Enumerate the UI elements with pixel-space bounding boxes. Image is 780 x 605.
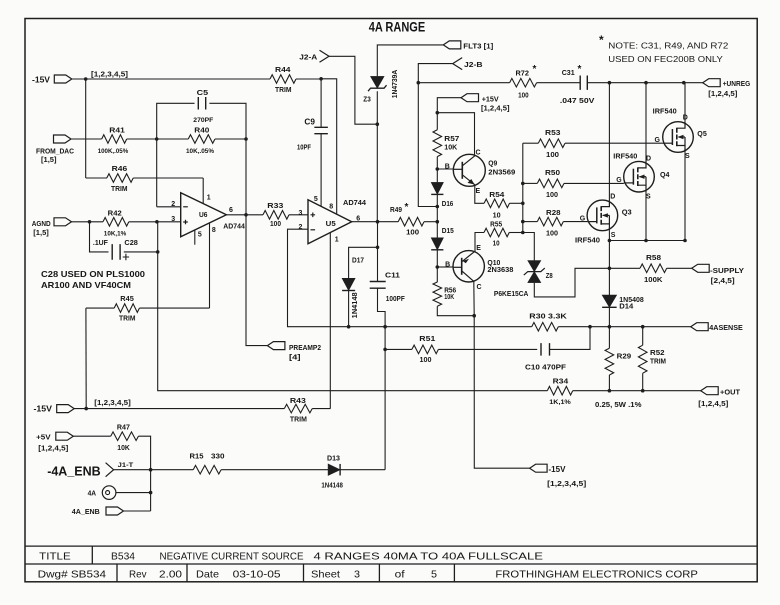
wire pin8 column [321,79,337,214]
node Q3 source [608,239,612,243]
node 4A/enable column [149,491,153,495]
svg-text:TRIM: TRIM [275,85,292,94]
svg-text:AD744: AD744 [343,198,367,207]
svg-text:2.00: 2.00 [159,568,182,580]
svg-text:B: B [445,164,450,171]
resistor R40 [188,135,215,144]
svg-text:R30 3.3K: R30 3.3K [529,312,567,321]
svg-text:Date: Date [196,568,219,580]
diode D13 1N4148 [328,464,340,476]
svg-text:AGND: AGND [32,219,51,228]
resistor R15 330 [193,465,221,474]
wire gate drive rail [522,143,524,232]
resistor R44 trim [270,75,296,84]
wire U6 pin1 trim [202,178,204,204]
svg-text:U6: U6 [199,210,208,219]
svg-text:1N4148: 1N4148 [352,292,359,318]
svg-text:R53: R53 [545,128,561,137]
svg-text:D16: D16 [442,199,454,208]
node rail/R55 [521,231,525,235]
wire R43 to U5 pin1 [312,408,330,410]
svg-text:03-10-05: 03-10-05 [233,568,281,580]
svg-text:[1,5]: [1,5] [33,230,49,237]
wire R58 to -SUPPLY [667,267,692,269]
title block lines [25,546,757,564]
svg-text:J2-B: J2-B [464,62,483,69]
svg-text:AD744: AD744 [223,222,245,231]
svg-text:Q4: Q4 [660,170,670,179]
svg-text:NOTE: C31, R49, AND R72: NOTE: C31, R49, AND R72 [608,41,728,51]
node rail/R54 [521,202,525,206]
wire Z8 bottom to R58 [534,268,640,297]
capacitor C28 (polarized) [90,222,109,252]
wire 4A_ENB to enable column [124,510,151,512]
svg-text:4A RANGE: 4A RANGE [369,19,426,34]
svg-text:1K,1%: 1K,1% [549,399,571,406]
svg-text:R34: R34 [553,377,569,386]
svg-text:TRIM: TRIM [111,184,128,193]
wire R33 to U5 pin3 [289,214,308,216]
connector PREAMP2 [267,342,285,350]
wire Q4 drain [645,83,647,162]
svg-text:Q9: Q9 [488,159,497,168]
svg-text:R51: R51 [419,334,435,343]
node Q4 drain on +UNREG rail [644,81,648,85]
svg-text:TRIM: TRIM [119,314,136,323]
wire D13 to C11/R51 column [340,469,385,471]
diode D17 1N4148 [349,222,378,279]
resistor R52 trim [642,327,644,346]
svg-text:-15V: -15V [549,465,567,474]
svg-text:10K: 10K [444,294,454,301]
wire pin3 column down to +OUT feedback line [158,222,548,391]
svg-text:-15V: -15V [32,75,51,84]
wire R28 to Q3 gate [563,221,587,223]
svg-text:S: S [646,194,651,201]
wire J1-T to R15 [114,469,194,471]
op-amp U6 AD744 [181,193,227,237]
svg-text:[1,2,4,5]: [1,2,4,5] [708,91,737,98]
svg-text:R44: R44 [275,65,291,74]
wire D14 to sense rail [608,307,610,326]
TVS Z8 P6KE15CA [528,261,541,272]
svg-text:J1-T: J1-T [118,462,134,469]
svg-text:R55: R55 [490,220,502,229]
svg-text:*: * [599,33,604,47]
resistor R51 [385,348,412,350]
node D17 top jog [376,246,380,250]
connector FLT3 [443,41,461,49]
svg-text:[1,2,4,5]: [1,2,4,5] [698,401,728,408]
wire -15V rail to R44 [72,78,270,80]
resistor R33 [263,211,289,220]
U5 pin1 lead down to R43 [329,233,331,409]
node U6 pin3 column [155,220,159,224]
wire Q10 collector node to -15V flag (bottom) [474,316,529,469]
svg-text:TITLE: TITLE [39,550,71,562]
svg-text:1N4739A: 1N4739A [392,70,399,99]
node Q9 base [436,167,440,171]
svg-text:4A: 4A [88,489,97,498]
wire D16 to drive node [436,194,438,237]
svg-text:.1UF: .1UF [93,240,109,247]
svg-text:6: 6 [229,207,233,214]
wire R53 to Q5 gate [565,142,663,144]
connector 4A_ENB [106,507,124,515]
svg-text:2: 2 [299,224,303,231]
svg-text:FLT3 [1]: FLT3 [1] [463,44,493,51]
svg-text:G: G [655,137,661,144]
node R44/C9 junction [319,77,323,81]
resistor R50 100 [523,182,538,184]
svg-text:D13: D13 [327,454,340,463]
diode D15 [431,238,443,250]
U6 pin8 lead to R45 [209,223,211,308]
wire C10 right up to sense rail [550,327,591,350]
node AGND/C28 left [88,220,92,224]
wire Q5 source [684,152,686,240]
svg-text:USED ON FEC200B ONLY: USED ON FEC200B ONLY [608,54,723,64]
resistor R54 10 [484,199,509,208]
svg-text:1: 1 [207,195,211,202]
connector +UNREG [703,79,721,87]
svg-text:R49: R49 [390,205,402,214]
svg-text:R58: R58 [646,253,661,262]
svg-text:U5: U5 [326,219,336,228]
MOSFET Q3 IRF540 [587,200,618,231]
connector -15V (top left) [54,75,72,83]
wire Q10 collector [473,282,475,316]
svg-text:[1,2,4,5]: [1,2,4,5] [481,105,510,112]
node R40/C5 right [244,137,248,141]
wire R44 to pin5/8 columns [296,78,321,80]
connector +15V [461,94,479,102]
svg-text:C9: C9 [304,118,315,127]
wire J2-A to Z3 node [329,56,377,124]
svg-text:C: C [477,284,482,291]
svg-text:R54: R54 [489,190,505,199]
svg-text:R50: R50 [545,168,560,177]
svg-text:G: G [616,177,622,184]
svg-text:R46: R46 [112,164,128,173]
svg-text:D: D [610,194,615,201]
svg-text:Sheet: Sheet [311,568,340,580]
svg-text:IRF540: IRF540 [575,238,600,245]
svg-text:[4]: [4] [289,355,301,362]
svg-text:R42: R42 [108,209,122,218]
wire Q10 base [437,266,453,268]
resistor R53 100 [523,142,539,144]
svg-text:100: 100 [546,230,558,237]
svg-text:B534: B534 [111,550,135,562]
svg-text:R33: R33 [267,201,283,210]
wire output column to PREAMP2 [246,139,267,346]
node Q4 source [644,239,648,243]
svg-text:0.25, 5W .1%: 0.25, 5W .1% [595,400,642,409]
svg-text:of: of [395,568,405,580]
connector FROM_DAC [54,135,72,143]
svg-text:R29: R29 [617,352,632,361]
svg-text:IRF540: IRF540 [613,154,637,161]
node inverting input column [155,137,159,141]
svg-text:C31: C31 [562,68,575,77]
wire J2-B down to drive node [418,64,452,207]
svg-text:3: 3 [171,216,175,223]
wire D15 to Q10 base [436,250,438,282]
svg-text:100: 100 [270,221,281,228]
wire source rail [609,240,685,242]
wire 4A to enable column [116,492,151,494]
wire sense rail to 4ASENSE [558,326,690,328]
node R29/+OUT rail [608,389,612,393]
svg-text:1: 1 [335,236,339,243]
resistor R41 [102,135,127,144]
wire R42 to U6 pin3 [129,221,181,223]
capacitor C11 100PF [377,247,379,281]
svg-text:D17: D17 [352,256,364,265]
svg-text:2N3638: 2N3638 [487,267,513,274]
transistor Q10 2N3638 (PNP) [453,251,484,282]
svg-text:D14: D14 [619,304,633,311]
svg-text:*: * [578,64,582,75]
connector J2-B [453,58,463,70]
node C10/sense [588,325,592,329]
U6 pin5 stub [194,230,196,245]
MOSFET Q4 IRF540 [624,161,655,192]
svg-text:Z3: Z3 [363,95,371,104]
svg-text:R43: R43 [290,396,306,405]
svg-text:B: B [445,262,450,269]
node R52/+OUT rail [641,389,645,393]
node Q10 collector [472,314,476,318]
svg-text:R28: R28 [546,208,561,217]
svg-text:[1,2,3,4,5]: [1,2,3,4,5] [94,400,131,407]
node J2-B / R72 [417,81,421,85]
wire +5V to R47 [73,435,110,437]
svg-text:+UNREG: +UNREG [723,79,751,88]
wire R50 to Q4 gate [564,182,624,184]
node Z3/J2-A [376,122,380,126]
svg-text:4A_ENB: 4A_ENB [72,507,101,516]
wire Q3 drain [608,83,610,201]
wire -15V bottom rail [74,408,284,410]
wire J2-B node to R72 [418,82,509,84]
svg-text:[2,4,5]: [2,4,5] [711,278,735,285]
svg-text:-4A_ENB: -4A_ENB [47,465,100,479]
resistor R28 100 [523,221,538,223]
svg-text:R15: R15 [190,452,204,461]
node U6 output / feedback column [244,213,248,217]
svg-text:-SUPPLY: -SUPPLY [710,266,744,275]
svg-text:R72: R72 [516,69,530,78]
connector +OUT [701,387,719,395]
node drive/R49 [436,220,440,224]
svg-text:R45: R45 [120,294,134,303]
svg-text:[1,2,3,4,5]: [1,2,3,4,5] [547,481,586,488]
svg-text:C: C [476,149,481,156]
wire FLT3 to Z3 [377,45,443,77]
MOSFET Q5 IRF540 [663,122,694,153]
svg-text:J2-A: J2-A [299,55,317,62]
zener Z3 1N4739A [371,76,385,88]
svg-text:C5: C5 [197,88,209,97]
svg-text:IRF540: IRF540 [653,109,677,116]
connector -15V (bottom right) [530,464,548,472]
svg-text:S: S [611,232,616,239]
op-amp U5 AD744 [308,200,352,244]
svg-text:10PF: 10PF [297,144,312,151]
wire -15V down to R46 [85,79,87,178]
svg-text:330: 330 [211,452,225,461]
node drive/J2-B [436,205,440,209]
svg-text:[1,2,3,4,5]: [1,2,3,4,5] [91,71,128,78]
node R52/sense [641,325,645,329]
capacitor C9 on pin5 column [320,79,322,128]
wire R47 to enable column [138,436,150,511]
wire U6 output [226,214,263,216]
wire FROM_DAC to R41 [71,138,102,140]
svg-text:3: 3 [354,568,360,580]
wire source column down to D14 [608,241,610,296]
resistor R42 [103,218,129,227]
svg-text:2N3569: 2N3569 [488,169,515,176]
transistor Q9 2N3569 (NPN) [453,154,485,186]
svg-text:Q3: Q3 [622,207,632,216]
svg-text:C28: C28 [124,238,137,247]
wire +15V branch to Q9 collector [437,113,474,155]
node rail/R50 [521,182,525,186]
svg-text:Q10: Q10 [487,258,500,267]
svg-text:Rev: Rev [129,568,147,580]
connector -15V (bottom left) [57,405,75,413]
svg-text:100: 100 [518,92,529,99]
svg-text:C10 470PF: C10 470PF [525,363,566,372]
svg-text:Z8: Z8 [546,271,553,280]
svg-text:5: 5 [198,232,202,239]
svg-text:[1,5]: [1,5] [41,157,57,164]
node Q5 source [683,239,687,243]
diode D14 1N5408 [602,295,617,307]
wire +15V to R57/Q9 [437,98,461,130]
svg-text:E: E [476,188,481,195]
svg-text:G: G [580,216,586,223]
svg-text:10K: 10K [444,145,457,152]
resistor R29 [608,327,610,349]
wire U5 pin2 feedback [288,229,532,327]
connector +5V [56,432,74,440]
svg-text:FROTHINGHAM ELECTRONICS CORP: FROTHINGHAM ELECTRONICS CORP [495,568,698,580]
svg-text:10: 10 [493,212,501,219]
svg-text:R52: R52 [650,348,665,357]
resistor R58 100K [640,264,667,273]
svg-text:5: 5 [431,568,437,580]
node -15V junction [84,77,88,81]
resistor R56 10K [433,282,442,306]
connector 4ASENSE [691,323,709,331]
svg-text:+5V: +5V [36,432,51,441]
wire R40 to output column [215,138,246,140]
svg-text:5: 5 [314,196,318,203]
svg-text:P6KE15CA: P6KE15CA [494,289,529,298]
capacitor C10 470PF [541,343,550,356]
resistor R34 1K [547,386,572,395]
resistor R72 [510,78,537,87]
svg-text:[1,2,4,5]: [1,2,4,5] [38,446,68,453]
node D14/sense [608,325,612,329]
resistor R47 10K [111,432,139,441]
svg-text:NEGATIVE CURRENT SOURCE: NEGATIVE CURRENT SOURCE [160,550,304,562]
wire U6 pin2 [157,206,181,208]
svg-text:+OUT: +OUT [720,388,740,397]
node R51 tap [383,348,387,352]
wire Q9 base [437,168,453,170]
wire Z3 to U5 output node [376,91,378,222]
svg-text:10: 10 [493,241,500,248]
resistor R45 trim [86,307,114,309]
svg-text:D15: D15 [442,226,454,235]
node C28 right [156,250,160,254]
wire Q3 source [608,231,610,241]
svg-text:100PF: 100PF [386,296,406,303]
svg-text:TRIM: TRIM [650,359,666,366]
wire R49 to drive node [424,221,437,223]
wire R15 to D13 [221,469,328,471]
resistor R43 trim [284,404,312,413]
svg-text:100K,.05%: 100K,.05% [98,148,129,155]
resistor R55 10 [484,228,509,237]
connector 4A (circle) [102,486,116,500]
node R45/-15V rail [84,407,88,411]
wire R45 left down to -15V bottom rail [85,308,87,409]
svg-text:PREAMP2: PREAMP2 [289,343,321,352]
capacitor C31 .047 50V [537,82,581,84]
node enable/R47 [149,468,153,472]
connector -SUPPLY [692,264,710,272]
svg-text:D: D [646,156,651,163]
svg-text:C28 USED ON PLS1000: C28 USED ON PLS1000 [41,269,145,279]
wire Q4 source [645,192,647,241]
node R58/source column [608,267,612,271]
connector AGND [54,218,72,226]
svg-text:10K,1%: 10K,1% [104,230,127,237]
svg-text:100K: 100K [644,277,663,284]
node D17 bottom on feedback rail [347,325,351,329]
wire R34 to +OUT [573,390,701,392]
node U5 output / Z3 [376,220,380,224]
wire Z8 top [523,233,535,261]
resistor R30 3.3K [532,322,559,331]
node Q10 base [436,265,440,269]
wire Q10 emitter to R55 [475,233,484,253]
wire Q9 emitter to R54 [475,185,484,204]
node +15V branch [436,111,440,115]
diode D16 [431,182,443,194]
svg-text:100: 100 [420,357,432,364]
svg-text:FROM_DAC: FROM_DAC [36,149,74,156]
svg-text:100: 100 [406,229,419,236]
svg-text:2: 2 [171,201,175,208]
svg-text:6: 6 [356,215,360,222]
wire R41-R40 [127,138,189,140]
node C11 bottom on feedback rail [383,325,387,329]
svg-text:S: S [685,153,690,160]
svg-text:E: E [476,245,481,252]
svg-text:R41: R41 [109,126,125,135]
svg-text:3: 3 [299,210,303,217]
svg-text:R40: R40 [194,126,209,135]
svg-text:Dwg# SB534: Dwg# SB534 [38,568,107,580]
connector J2-A [320,50,330,62]
